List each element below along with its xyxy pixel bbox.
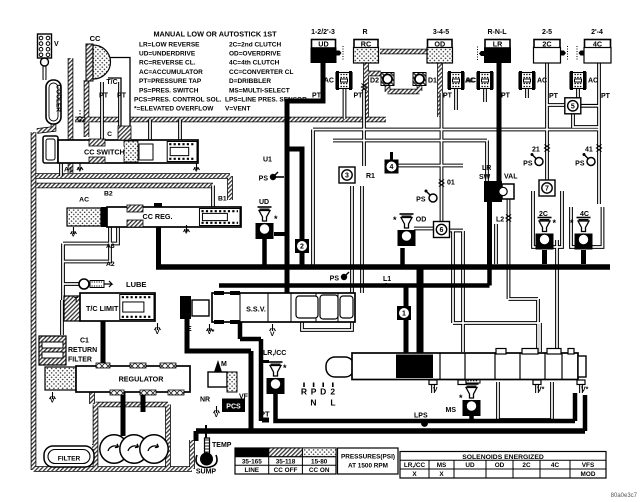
- svg-text:1-2/2'-3: 1-2/2'-3: [311, 29, 335, 36]
- svg-text:*: *: [283, 363, 287, 373]
- svg-text:U1: U1: [263, 157, 272, 164]
- svg-text:R: R: [362, 29, 367, 36]
- svg-text:V: V: [214, 412, 219, 419]
- svg-text:PT: PT: [99, 93, 109, 100]
- svg-text:OD=OVERDRIVE: OD=OVERDRIVE: [229, 51, 281, 58]
- svg-text:V: V: [433, 387, 438, 394]
- svg-text:5: 5: [571, 103, 575, 110]
- svg-text:PT: PT: [601, 93, 611, 100]
- svg-text:L: L: [330, 398, 335, 408]
- svg-text:C: C: [107, 131, 112, 138]
- svg-text:PT: PT: [260, 410, 270, 419]
- svg-text:T/C: T/C: [106, 79, 117, 86]
- svg-text:PS: PS: [330, 276, 340, 283]
- svg-text:AC: AC: [465, 78, 475, 85]
- svg-text:D=DRIBBLER: D=DRIBBLER: [229, 78, 271, 85]
- svg-text:2C: 2C: [542, 40, 551, 49]
- svg-text:15-80: 15-80: [311, 459, 328, 466]
- svg-text:C2: C2: [77, 117, 86, 124]
- svg-text:AC: AC: [537, 78, 547, 85]
- svg-text:V*: V*: [207, 329, 215, 336]
- svg-text:LINE: LINE: [245, 467, 260, 474]
- svg-text:4C: 4C: [551, 462, 560, 469]
- svg-text:P: P: [311, 387, 317, 397]
- svg-text:B2: B2: [104, 191, 113, 198]
- svg-text:B1: B1: [218, 196, 227, 203]
- svg-text:2C=2nd CLUTCH: 2C=2nd CLUTCH: [229, 41, 281, 48]
- svg-text:V: V: [184, 229, 189, 236]
- svg-text:OD: OD: [416, 217, 427, 224]
- svg-text:A3: A3: [106, 243, 115, 250]
- svg-text:*: *: [393, 215, 397, 225]
- svg-text:V*: V*: [581, 387, 589, 394]
- svg-text:T/C LIMIT: T/C LIMIT: [86, 304, 119, 313]
- svg-text:RC=REVERSE CL.: RC=REVERSE CL.: [139, 60, 196, 67]
- svg-text:PT: PT: [312, 93, 322, 100]
- svg-text:7: 7: [545, 186, 549, 193]
- svg-text:LR,/CC: LR,/CC: [263, 350, 286, 357]
- svg-text:VAL: VAL: [504, 174, 518, 181]
- svg-text:S.S.V.: S.S.V.: [246, 305, 266, 314]
- svg-text:6: 6: [440, 227, 444, 234]
- svg-text:*: *: [274, 214, 278, 224]
- svg-text:UD: UD: [259, 199, 269, 206]
- svg-text:PS: PS: [259, 176, 269, 183]
- svg-text:REGULATOR: REGULATOR: [119, 375, 165, 384]
- svg-text:*=ELEVATED OVERFLOW: *=ELEVATED OVERFLOW: [134, 106, 214, 113]
- svg-text:CC ON: CC ON: [309, 467, 330, 474]
- svg-text:OD: OD: [495, 462, 505, 469]
- svg-text:2-5: 2-5: [542, 29, 552, 36]
- svg-text:CC=CONVERTER CL: CC=CONVERTER CL: [229, 69, 293, 76]
- svg-text:AT 1500 RPM: AT 1500 RPM: [348, 463, 388, 470]
- svg-text:1: 1: [402, 311, 406, 318]
- svg-text:*: *: [553, 218, 557, 228]
- svg-text:2'-4: 2'-4: [591, 29, 603, 36]
- svg-text:AC=ACCUMULATOR: AC=ACCUMULATOR: [139, 69, 203, 76]
- svg-text:CC: CC: [90, 34, 101, 43]
- svg-text:TEMP: TEMP: [212, 442, 232, 449]
- svg-text:2C: 2C: [522, 462, 531, 469]
- svg-text:41: 41: [585, 147, 593, 154]
- svg-text:V: V: [54, 41, 59, 48]
- svg-text:*: *: [570, 218, 574, 228]
- svg-text:X: X: [439, 471, 444, 478]
- svg-text:VFS: VFS: [582, 462, 595, 469]
- svg-text:PT: PT: [549, 93, 559, 100]
- svg-text:PS=PRES. SWITCH: PS=PRES. SWITCH: [139, 87, 199, 94]
- svg-text:LR,/CC: LR,/CC: [404, 462, 426, 469]
- svg-text:CC OFF: CC OFF: [274, 467, 298, 474]
- svg-text:AC: AC: [588, 78, 598, 85]
- svg-text:CC REG.: CC REG.: [143, 212, 173, 221]
- svg-text:35-118: 35-118: [276, 459, 296, 466]
- svg-text:MS: MS: [446, 407, 457, 414]
- svg-text:PCS: PCS: [226, 404, 241, 411]
- svg-text:RC: RC: [361, 40, 371, 49]
- svg-text:PS: PS: [575, 161, 585, 168]
- svg-text:D2: D2: [370, 78, 379, 85]
- svg-text:V: V: [194, 167, 199, 174]
- svg-text:2: 2: [330, 387, 335, 397]
- svg-text:R: R: [301, 387, 307, 397]
- svg-text:NR: NR: [200, 397, 210, 404]
- svg-text:PT: PT: [443, 93, 453, 100]
- svg-text:UD: UD: [465, 462, 475, 469]
- svg-text:V: V: [50, 398, 55, 405]
- svg-text:CC SWITCH: CC SWITCH: [84, 148, 125, 157]
- svg-text:N: N: [310, 398, 316, 408]
- svg-text:MS: MS: [437, 462, 447, 469]
- svg-text:4C: 4C: [593, 40, 602, 49]
- svg-text:FILTER: FILTER: [58, 456, 81, 463]
- svg-text:E: E: [187, 326, 192, 333]
- svg-text:A1: A1: [64, 167, 73, 174]
- svg-text:PT: PT: [354, 93, 364, 100]
- svg-text:4: 4: [390, 164, 394, 171]
- svg-text:MANUAL LOW OR AUTOSTICK 1ST: MANUAL LOW OR AUTOSTICK 1ST: [153, 30, 277, 39]
- svg-text:LPS: LPS: [414, 413, 428, 420]
- svg-text:PT: PT: [117, 93, 127, 100]
- svg-text:D1: D1: [428, 78, 437, 85]
- svg-text:UD=UNDERDRIVE: UD=UNDERDRIVE: [139, 51, 196, 58]
- svg-text:80a0e3c7: 80a0e3c7: [611, 493, 638, 499]
- svg-text:35-165: 35-165: [242, 459, 262, 466]
- svg-text:M: M: [221, 361, 227, 368]
- svg-text:L1: L1: [383, 276, 391, 283]
- svg-text:SOLENOIDS ENERGIZED: SOLENOIDS ENERGIZED: [462, 454, 544, 461]
- svg-text:V: V: [71, 232, 76, 239]
- svg-text:V: V: [270, 331, 275, 338]
- svg-text:PS: PS: [523, 161, 533, 168]
- svg-text:LR=LOW REVERSE: LR=LOW REVERSE: [139, 41, 200, 48]
- svg-text:PCS=PRES. CONTROL SOL.: PCS=PRES. CONTROL SOL.: [134, 97, 222, 104]
- svg-text:LR: LR: [482, 165, 491, 172]
- svg-text:2: 2: [300, 244, 304, 251]
- svg-text:FILTER: FILTER: [68, 357, 92, 364]
- svg-text:OD: OD: [434, 40, 445, 49]
- svg-text:T: T: [74, 297, 79, 304]
- svg-text:C1: C1: [80, 338, 89, 345]
- svg-text:VF: VF: [239, 394, 249, 401]
- svg-text:3-4-5: 3-4-5: [433, 29, 449, 36]
- svg-text:D: D: [320, 387, 326, 397]
- svg-text:R-N-L: R-N-L: [487, 29, 507, 36]
- svg-text:4C: 4C: [580, 211, 589, 218]
- svg-text:PT: PT: [501, 93, 511, 100]
- svg-text:SUMP: SUMP: [196, 469, 217, 476]
- svg-text:SW: SW: [479, 174, 491, 181]
- svg-text:COOLER: COOLER: [55, 85, 62, 113]
- svg-text:PT=PRESSURE TAP: PT=PRESSURE TAP: [139, 78, 202, 85]
- svg-text:V: V: [155, 329, 160, 336]
- svg-text:L2: L2: [496, 217, 504, 224]
- svg-text:LR: LR: [493, 40, 503, 49]
- svg-text:V=VENT: V=VENT: [225, 106, 250, 113]
- svg-text:21: 21: [532, 147, 540, 154]
- svg-text:LUBE: LUBE: [126, 280, 146, 289]
- svg-text:V: V: [78, 167, 83, 174]
- svg-text:R1: R1: [366, 173, 375, 180]
- svg-text:4C=4th CLUTCH: 4C=4th CLUTCH: [229, 60, 280, 67]
- svg-text:MS=MULTI-SELECT: MS=MULTI-SELECT: [229, 87, 290, 94]
- svg-text:X: X: [412, 471, 417, 478]
- svg-text:RETURN: RETURN: [68, 347, 97, 354]
- svg-text:01: 01: [447, 180, 455, 187]
- svg-text:LPS=LINE PRES. SENSOR: LPS=LINE PRES. SENSOR: [225, 97, 307, 104]
- svg-text:PRESSURES(PSI): PRESSURES(PSI): [341, 454, 395, 461]
- svg-text:3: 3: [345, 173, 349, 180]
- svg-text:MOD: MOD: [581, 471, 596, 478]
- svg-text:PS: PS: [416, 197, 426, 204]
- svg-text:V*: V*: [537, 387, 545, 394]
- svg-text:A2: A2: [106, 261, 115, 268]
- svg-text:*: *: [459, 393, 463, 403]
- svg-text:2C: 2C: [539, 211, 548, 218]
- svg-text:AC: AC: [324, 78, 334, 85]
- svg-text:AC: AC: [79, 197, 89, 204]
- svg-text:UD: UD: [318, 40, 328, 49]
